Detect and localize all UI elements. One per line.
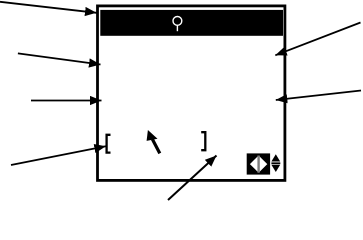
callout arrow 7 (bottom, to right bracket)	[168, 156, 217, 201]
window frame	[98, 6, 285, 181]
callout arrow 5 (top right, to window edge)	[275, 23, 360, 56]
title bar	[100, 10, 283, 36]
mouse cursor	[147, 130, 160, 153]
callout arrow 3 (left, horizontal to window edge)	[31, 100, 102, 102]
callout arrow 4 (lower left, to left bracket)	[11, 146, 106, 165]
callout arrow 2 (left, to upper window edge)	[18, 53, 101, 64]
right bracket ]	[201, 132, 205, 150]
callout arrow 1 (top left, to title bar)	[0, 2, 97, 13]
horizontal resize control (black square with split diamond)	[247, 153, 270, 174]
callout arrow 6 (right, to window edge)	[276, 91, 361, 101]
title-bar lollipop icon	[173, 17, 182, 32]
left bracket [	[107, 135, 111, 153]
vertical scroll control (up/down triangles)	[271, 154, 280, 172]
